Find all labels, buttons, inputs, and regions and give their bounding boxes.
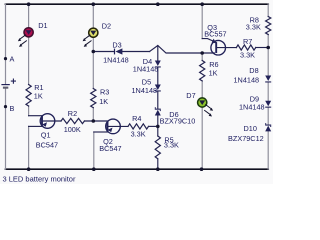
svg-text:1N4148: 1N4148 — [132, 86, 158, 95]
svg-text:1N4148: 1N4148 — [103, 55, 129, 64]
svg-text:D2: D2 — [102, 21, 111, 30]
svg-text:R7: R7 — [243, 37, 252, 46]
svg-text:1N4148: 1N4148 — [133, 65, 159, 74]
svg-text:R4: R4 — [132, 114, 141, 123]
svg-text:100K: 100K — [64, 125, 81, 134]
svg-text:3 LED battery monitor: 3 LED battery monitor — [3, 174, 76, 183]
svg-text:BC547: BC547 — [99, 144, 121, 153]
svg-text:BZX79C10: BZX79C10 — [160, 116, 196, 125]
svg-text:R3: R3 — [100, 88, 109, 97]
svg-text:D8: D8 — [249, 66, 258, 75]
svg-text:3.3K: 3.3K — [131, 130, 146, 139]
svg-text:BZX79C12: BZX79C12 — [228, 134, 264, 143]
svg-text:1K: 1K — [34, 91, 43, 100]
svg-text:BC557: BC557 — [204, 29, 226, 38]
svg-text:Q1: Q1 — [41, 131, 51, 140]
svg-text:D3: D3 — [112, 41, 121, 50]
svg-text:A: A — [10, 55, 15, 64]
svg-text:1N4148: 1N4148 — [239, 103, 265, 112]
svg-text:R2: R2 — [68, 109, 77, 118]
svg-text:D10: D10 — [244, 124, 257, 133]
svg-text:3.3K: 3.3K — [246, 22, 261, 31]
svg-text:3.3K: 3.3K — [164, 141, 179, 150]
svg-text:3.3K: 3.3K — [240, 50, 255, 59]
svg-text:B: B — [10, 104, 15, 113]
svg-text:1K: 1K — [99, 97, 108, 106]
svg-text:BC547: BC547 — [36, 141, 58, 150]
svg-text:D1: D1 — [38, 21, 47, 30]
svg-text:D7: D7 — [186, 91, 195, 100]
svg-text:1K: 1K — [209, 68, 218, 77]
svg-text:1N4148: 1N4148 — [234, 76, 260, 85]
